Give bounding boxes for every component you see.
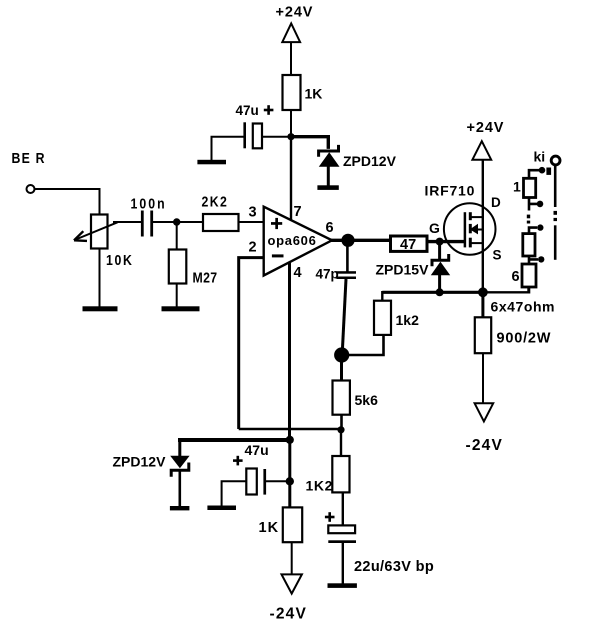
node gate / ZPD15V: [436, 238, 444, 246]
wire 47p to big feedback node: [342, 279, 346, 352]
node MOSFET source / output: [478, 287, 488, 297]
wire ground to 47u cap: [222, 481, 247, 505]
capacitor C 100n plates: [141, 211, 144, 237]
wire rail to 1k2: [381, 291, 383, 301]
zener ZPD12V (bottom) triangle: [170, 456, 189, 468]
svg-text:1K2: 1K2: [306, 478, 333, 494]
wire input terminal to potentiometer: [35, 189, 100, 215]
capacitor C 22u/63V plate box: [328, 525, 355, 533]
wire node to M27: [176, 222, 178, 250]
wire 47u to pin4 node: [266, 480, 290, 482]
svg-text:ZPD15V: ZPD15V: [376, 262, 430, 278]
zener ZPD15V cathode bar: [432, 254, 449, 266]
svg-text:ki: ki: [534, 149, 546, 165]
wire source node to 900/2W: [481, 292, 484, 318]
svg-text:-24V: -24V: [466, 437, 504, 454]
wire zener to terminal bar: [327, 166, 330, 186]
switch rail upper segment: [554, 165, 557, 207]
ground (pot): [83, 306, 118, 311]
MOSFET channel segment (body): [469, 224, 472, 233]
ground (top 47u cap): [197, 160, 226, 165]
wire 900/2W to -24V arrow: [482, 353, 484, 404]
zener diode ZPD12V (top) cathode bar: [319, 145, 339, 157]
resistor R 1K (bottom): [283, 507, 302, 542]
svg-text:BE R: BE R: [12, 150, 46, 166]
MOSFET body arrow wire: [471, 229, 483, 231]
svg-text:47u: 47u: [236, 103, 259, 118]
svg-text:1: 1: [513, 179, 521, 195]
MOSFET drain internal wire: [470, 216, 483, 218]
svg-text:100n: 100n: [131, 195, 167, 211]
wire M27 to ground: [176, 284, 178, 307]
wire big node to 5k6: [340, 355, 343, 381]
svg-text:10K: 10K: [106, 252, 133, 268]
wire 1k2 down and left to big node: [342, 335, 384, 355]
wire ladder top tap: [529, 170, 540, 179]
contact dot (tap 4): [538, 256, 544, 262]
zener ZPD12V (top) triangle: [319, 152, 340, 167]
wire 2K2 to op-amp pin 3: [239, 221, 265, 223]
plus sign (47u bottom cap): [233, 459, 243, 462]
resistor ladder R5 (middle): [523, 234, 535, 256]
switch wiper contact square: [546, 168, 551, 175]
potentiometer R 10K body: [91, 215, 108, 249]
svg-text:1K: 1K: [305, 86, 323, 102]
wire pot to ground: [99, 249, 101, 307]
wire 100n to input node: [153, 221, 177, 223]
wire ladder tap 3: [529, 228, 537, 234]
svg-text:+24V: +24V: [467, 120, 505, 136]
capacitor C 47u (top, electrolytic) left plate: [243, 122, 246, 148]
svg-text:M27: M27: [193, 269, 218, 285]
op-amp minus sign (pin 2 input): [272, 254, 284, 257]
svg-text:+24V: +24V: [276, 5, 314, 21]
switch rail break dots: [554, 211, 558, 215]
ladder chain break dots: [527, 215, 530, 219]
contact dot (tap 2): [537, 201, 544, 208]
svg-text:47p: 47p: [316, 267, 339, 282]
node pin4 / 47u / 1K: [286, 477, 294, 485]
-24V arrow (right): [475, 403, 494, 421]
wire source rail to ladder: [484, 291, 530, 293]
contact dot (tap 3): [537, 224, 543, 230]
op-amp plus sign (pin 3 input): [271, 222, 282, 225]
wire gate node to zener ZPD15V: [438, 242, 441, 259]
svg-text:opa606: opa606: [268, 233, 317, 248]
switch rail lower segment: [554, 225, 557, 259]
resistor R 900/2W: [475, 317, 491, 353]
resistor R 1K2 (bottom): [332, 456, 349, 492]
thick wire negative feedback rail (ZPD12V to pin4 node): [178, 438, 290, 442]
wire node to op-amp pin 7: [290, 137, 292, 220]
svg-text:2K2: 2K2: [202, 193, 229, 209]
ground (47u bottom): [207, 506, 236, 511]
svg-text:IRF710: IRF710: [425, 183, 476, 199]
node output (pin6/47p) big dot: [341, 234, 354, 247]
svg-text:1K: 1K: [259, 520, 280, 536]
zener ZPD12V (bottom) anode terminal bar: [170, 506, 190, 510]
resistor R 47 (gate stopper): [391, 236, 428, 251]
resistor R M27: [169, 250, 187, 284]
svg-text:ZPD12V: ZPD12V: [343, 153, 397, 169]
wire R6 to source rail: [527, 287, 530, 294]
node junction (1K / 47u / ZPD12V / pin7): [287, 133, 294, 140]
wire ladder tap 4 and chain to R6: [529, 256, 538, 266]
output terminal circle (ki): [551, 156, 560, 165]
capacitor C 47u (bottom) plate box: [246, 469, 256, 495]
node pin4 / rail: [286, 436, 294, 444]
wire zener to terminal bar: [179, 470, 182, 506]
capacitor C 47p plates: [336, 271, 356, 274]
svg-text:D: D: [491, 195, 501, 210]
thick wire output (pin 6) to resistor 47: [331, 239, 390, 242]
zener ZPD15V triangle: [431, 262, 450, 276]
resistor R 5k6: [333, 381, 350, 415]
op-amp U1 opa606 triangle: [264, 207, 332, 276]
node feedback divider (big dot): [334, 347, 349, 362]
capacitor C 22u/63V plate line: [328, 540, 356, 543]
node 5k6 / feedback / 1K2: [337, 426, 344, 433]
MOSFET body arrowhead: [470, 224, 478, 235]
input terminal circle: [27, 185, 35, 193]
resistor ladder R6: [522, 264, 536, 287]
capacitor C 47u (top) right plate box: [253, 124, 262, 149]
zener ZPD12V (bottom) cathode bar: [171, 463, 189, 477]
+24V supply arrow (right): [472, 141, 491, 160]
svg-text:6: 6: [326, 220, 334, 236]
svg-text:1k2: 1k2: [396, 312, 420, 328]
svg-text:6x47ohm: 6x47ohm: [491, 299, 556, 315]
svg-text:900/2W: 900/2W: [497, 331, 552, 347]
wire 1K to -24V arrow: [291, 542, 293, 575]
resistor ladder R1: [524, 178, 536, 197]
thick wire source rail (zener bottom / 1k2 / source): [382, 291, 483, 294]
svg-text:7: 7: [294, 204, 302, 220]
svg-text:47: 47: [400, 237, 416, 253]
capacitor C 47u (bottom) plate line: [263, 469, 266, 495]
wire 1K2 to 22u cap: [342, 492, 344, 526]
svg-text:ZPD12V: ZPD12V: [113, 454, 167, 470]
wire pin4 rail down (440-481-1K): [288, 440, 291, 508]
wire ladder tap 2: [529, 198, 537, 211]
wire +24V down through MOSFET to source node (drain rail): [482, 160, 484, 293]
ground (22u): [328, 583, 357, 588]
wire 47u cap to node: [262, 136, 291, 138]
plus sign (22u cap): [325, 516, 335, 519]
-24V arrow (bottom): [282, 574, 302, 593]
pot wiper line: [75, 222, 118, 240]
wire 22u to ground: [342, 543, 344, 584]
+24V supply arrow (top): [282, 23, 300, 42]
wire feedback horizontal to 5k6 node: [239, 428, 341, 430]
thick wire node to zener ZPD12V: [291, 137, 328, 149]
svg-text:-24V: -24V: [270, 606, 308, 623]
pot wiper arrowhead: [74, 231, 87, 241]
wire ZPD15V to source rail node: [438, 274, 441, 292]
node input junction (100n/M27/2K2): [173, 218, 180, 225]
MOSFET source internal wire: [470, 242, 483, 244]
wire 1K to node: [290, 110, 292, 140]
MOSFET Q1 IRF710 body circle: [444, 203, 496, 255]
wire +24V arrow to resistor 1K: [290, 42, 292, 76]
wire node to 2K2: [177, 221, 203, 223]
contact dot (top tap): [539, 167, 546, 174]
thick wire 47 to MOSFET gate: [427, 240, 465, 243]
wire ground to 47u cap: [212, 137, 244, 160]
wire op-amp pin 4 down: [288, 262, 291, 441]
svg-text:G: G: [429, 220, 440, 236]
wire wiper node to 100n: [113, 221, 141, 223]
ground (M27): [162, 306, 200, 311]
resistor R 1K (top): [283, 75, 301, 110]
svg-text:5k6: 5k6: [355, 392, 379, 408]
svg-text:6: 6: [512, 269, 520, 285]
wire 47p from output node: [346, 240, 349, 272]
wire op-amp pin 2 feedback (left and down): [239, 258, 264, 429]
resistor R 1k2: [374, 301, 391, 335]
wire 5k6 to node: [340, 415, 343, 430]
wire node to 1K2: [340, 430, 342, 457]
resistor R 2K2: [203, 214, 239, 231]
MOSFET channel segment (source): [469, 238, 472, 248]
svg-text:4: 4: [294, 265, 302, 281]
MOSFET channel segment (drain): [469, 212, 472, 220]
MOSFET gate bar: [464, 212, 467, 247]
svg-text:S: S: [493, 248, 502, 263]
svg-text:2: 2: [249, 240, 257, 256]
svg-text:22u/63V bp: 22u/63V bp: [354, 559, 434, 575]
zener ZPD12V (top) anode terminal bar: [317, 185, 338, 190]
svg-text:3: 3: [249, 205, 257, 221]
svg-text:47u: 47u: [245, 442, 269, 458]
node zener ZPD15V bottom: [436, 288, 444, 296]
wire rail to zener ZPD12V (bottom): [178, 439, 181, 457]
